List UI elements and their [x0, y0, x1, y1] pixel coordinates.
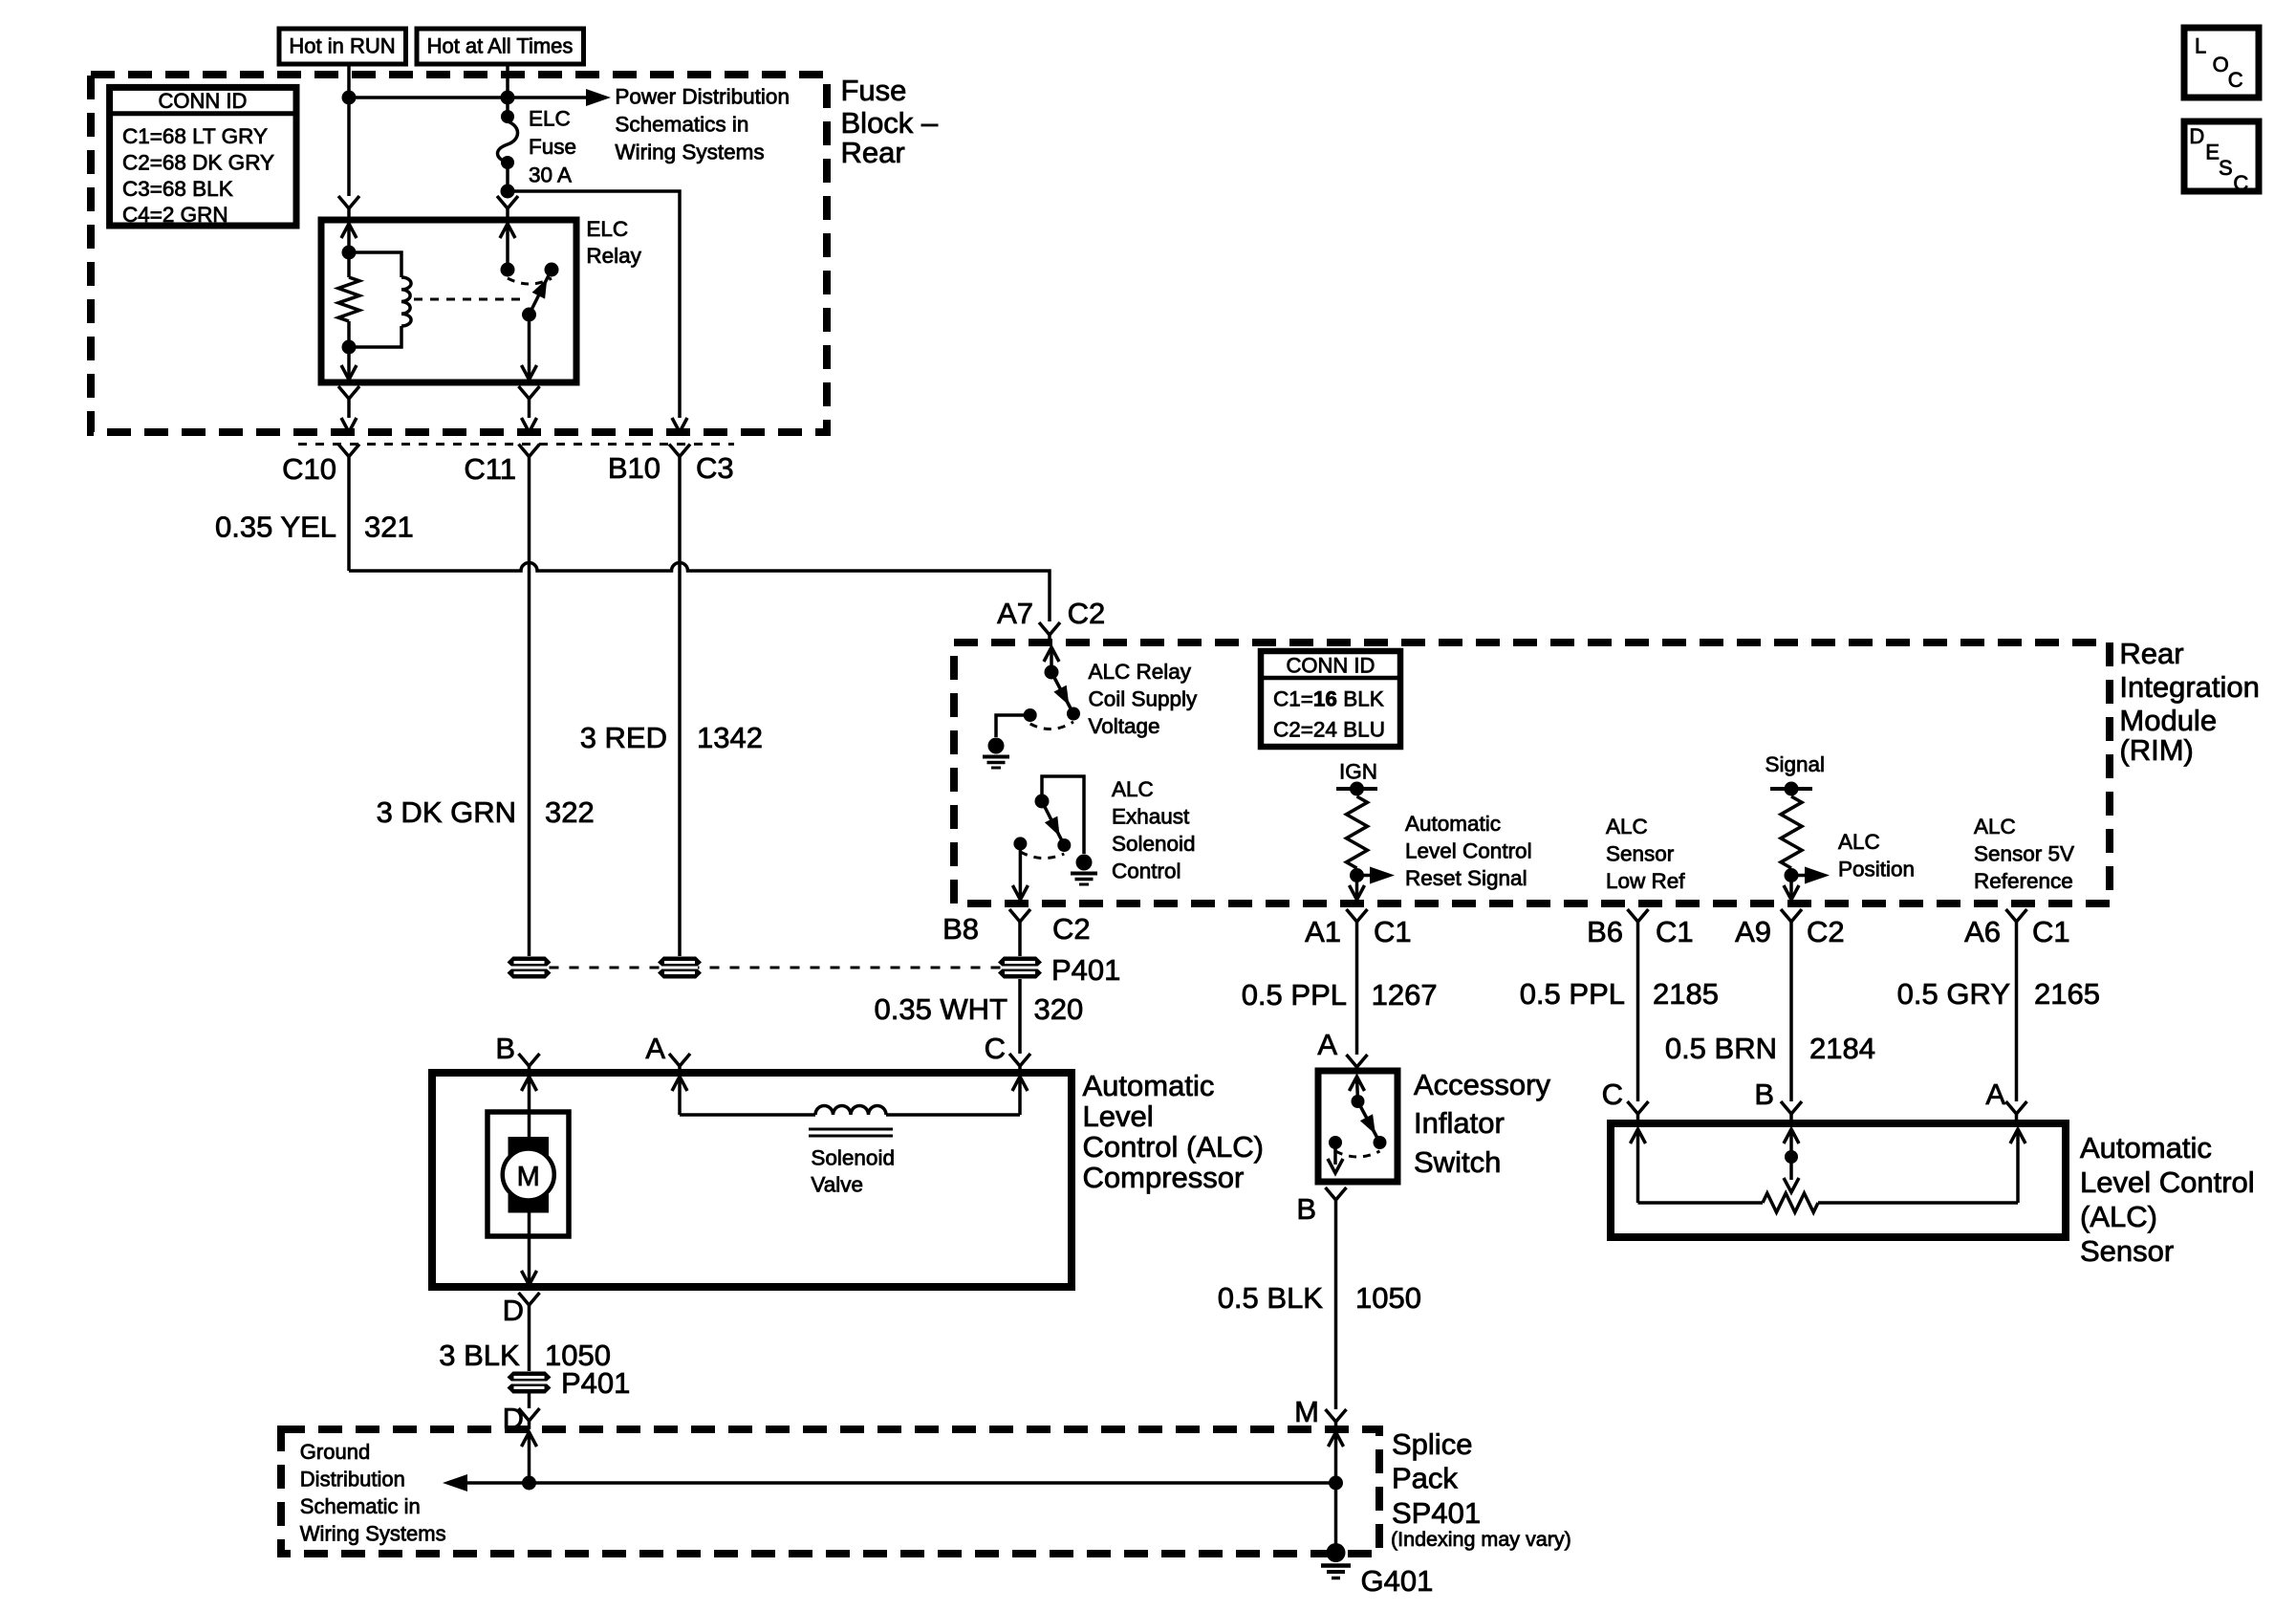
svg-text:A1: A1: [1305, 915, 1341, 948]
contact dot output: [1329, 1136, 1342, 1149]
in-line connector (B10 leg): [658, 957, 702, 979]
connector D below compressor: [519, 1293, 540, 1305]
accessory inflator switch box: [1318, 1071, 1397, 1182]
junction dot fuse output: [501, 185, 515, 199]
svg-text:D: D: [2189, 124, 2204, 148]
connector C into compressor: [1009, 1054, 1030, 1066]
svg-text:Wiring Systems: Wiring Systems: [615, 141, 764, 164]
svg-text:Pack: Pack: [1392, 1462, 1458, 1495]
svg-text:B10: B10: [608, 451, 661, 485]
svg-text:D: D: [503, 1294, 524, 1327]
ground (ALC relay): [988, 738, 1005, 754]
arrow Automatic Level Control Reset Signal: [1357, 874, 1372, 878]
svg-text:C3: C3: [696, 451, 734, 485]
wire 0.5 PPL 2185: [1636, 922, 1640, 1101]
svg-text:ALC: ALC: [1606, 815, 1648, 838]
wire 3 DK GRN 322: [528, 457, 531, 957]
svg-text:0.35 WHT: 0.35 WHT: [874, 992, 1007, 1026]
svg-text:1267: 1267: [1372, 978, 1438, 1012]
fuse ELC Fuse 30A: [501, 110, 514, 123]
svg-text:Automatic: Automatic: [2080, 1131, 2212, 1165]
wire Hot in RUN feed: [347, 64, 351, 196]
svg-text:S: S: [2219, 156, 2233, 180]
potentiometer ALC sensor element: [1638, 1201, 1764, 1205]
svg-text:Splice: Splice: [1392, 1427, 1472, 1461]
svg-text:Rear: Rear: [841, 136, 905, 169]
wire fuse to junction: [506, 163, 509, 191]
svg-text:Solenoid: Solenoid: [1112, 832, 1196, 856]
svg-text:3 RED: 3 RED: [580, 721, 667, 754]
wire solenoid branch: [680, 1113, 815, 1117]
relay contact dot (from fuse): [501, 263, 515, 277]
svg-text:A7: A7: [997, 597, 1033, 630]
svg-text:Block –: Block –: [841, 106, 939, 140]
svg-text:C2: C2: [1068, 597, 1106, 630]
switch arm inflator: [1350, 1077, 1365, 1091]
arrow to ground distribution schematic: [443, 1474, 467, 1491]
svg-text:Integration: Integration: [2119, 670, 2260, 704]
in-line connector P401 (B8 leg): [998, 957, 1042, 979]
wire relay coil link dashed: [414, 298, 521, 301]
splice bus wire: [466, 1481, 1336, 1485]
connector A9 / C2: [1781, 909, 1802, 922]
svg-text:0.5 BRN: 0.5 BRN: [1665, 1032, 1777, 1065]
svg-text:Fuse: Fuse: [841, 74, 907, 107]
arrow motor output: [522, 1271, 537, 1285]
arrow M into splice: [1329, 1432, 1344, 1447]
svg-text:Control (ALC): Control (ALC): [1083, 1130, 1265, 1164]
svg-text:CONN ID: CONN ID: [159, 89, 248, 113]
svg-text:Low Ref: Low Ref: [1606, 869, 1685, 893]
svg-text:P401: P401: [561, 1366, 630, 1400]
svg-text:C2=24 BLU: C2=24 BLU: [1273, 718, 1385, 742]
wire to ground G401: [1334, 1483, 1338, 1545]
resistor relay coil suppression: [347, 252, 351, 277]
svg-text:C: C: [1602, 1078, 1623, 1111]
svg-text:Relay: Relay: [586, 244, 641, 268]
svg-text:Compressor: Compressor: [1083, 1161, 1245, 1194]
svg-text:E: E: [2205, 141, 2220, 164]
wire C10 to A7 horizontal with hops: [349, 563, 1050, 621]
svg-text:Switch: Switch: [1414, 1145, 1501, 1179]
svg-text:C11: C11: [464, 452, 516, 486]
svg-text:Automatic: Automatic: [1083, 1069, 1215, 1102]
svg-text:A: A: [1317, 1028, 1337, 1061]
connector B below inflator switch: [1326, 1187, 1347, 1200]
svg-text:ELC: ELC: [586, 217, 628, 241]
svg-text:ALC Relay: ALC Relay: [1089, 660, 1192, 684]
junction dot power line left: [342, 91, 357, 105]
svg-text:Rear: Rear: [2119, 637, 2183, 670]
switch travel arc dashed: [1020, 852, 1064, 859]
svg-text:Hot at All Times: Hot at All Times: [427, 34, 574, 58]
arrow relay coil output: [341, 365, 357, 380]
connector A6 / C1: [2006, 909, 2027, 922]
svg-text:Schematic in: Schematic in: [300, 1494, 421, 1518]
svg-text:Distribution: Distribution: [300, 1468, 405, 1491]
relay coil input arrow: [341, 224, 357, 238]
arrow motor supply input: [522, 1077, 537, 1091]
svg-text:Voltage: Voltage: [1089, 714, 1160, 738]
arrow C11 exits fuse block: [522, 418, 537, 432]
svg-text:Schematics in: Schematics in: [615, 113, 748, 137]
svg-text:A6: A6: [1964, 915, 2001, 948]
wire power distribution feed line: [349, 96, 586, 99]
wire 0.5 BLK 1050: [1334, 1200, 1338, 1409]
connector A into compressor: [669, 1054, 690, 1066]
svg-text:2165: 2165: [2034, 977, 2100, 1011]
switch travel arc dashed: [1335, 1151, 1380, 1157]
ALC compressor box: [432, 1073, 1072, 1287]
svg-text:B: B: [495, 1032, 515, 1065]
connector row dashed line: [298, 443, 734, 446]
svg-text:Accessory: Accessory: [1414, 1068, 1550, 1101]
svg-text:321: 321: [364, 511, 414, 544]
svg-text:Signal: Signal: [1765, 752, 1826, 776]
svg-text:B6: B6: [1587, 915, 1623, 948]
connector chevron into relay (fuse side): [497, 196, 518, 208]
connector A7 / C2 chevron: [1039, 622, 1060, 635]
svg-text:Reference: Reference: [1974, 869, 2073, 893]
arrow B10 wire exits fuse block: [672, 418, 687, 432]
svg-text:0.35 YEL: 0.35 YEL: [215, 511, 336, 544]
inductor solenoid valve coil: [815, 1106, 886, 1116]
fuse block - rear dashed boundary: [91, 75, 827, 432]
svg-text:Sensor: Sensor: [1606, 842, 1675, 866]
arrow relay switch output: [522, 365, 537, 380]
svg-text:Level Control: Level Control: [2080, 1165, 2255, 1199]
svg-text:C1: C1: [1374, 915, 1412, 948]
connector chevron below relay left: [338, 386, 359, 399]
ground (exhaust solenoid): [1076, 855, 1093, 871]
junction dot M splice: [1329, 1476, 1343, 1491]
wire reset signal exits RIM: [1355, 876, 1359, 898]
svg-text:Exhaust: Exhaust: [1112, 805, 1190, 829]
svg-text:0.5 BLK: 0.5 BLK: [1218, 1281, 1324, 1315]
svg-text:SP401: SP401: [1392, 1496, 1481, 1530]
svg-text:322: 322: [545, 795, 595, 829]
svg-text:Automatic: Automatic: [1405, 812, 1501, 836]
relay contact dot (output side): [545, 263, 559, 277]
contact dot NC (to ground): [1024, 708, 1037, 722]
svg-text:C2: C2: [1052, 912, 1091, 946]
wire fuse output to ELC relay: [506, 191, 509, 196]
connector B into sensor: [1781, 1101, 1802, 1114]
arrow exhaust control exits RIM: [1012, 885, 1028, 900]
svg-text:2184: 2184: [1809, 1032, 1875, 1065]
connector chevron below relay right: [519, 386, 540, 399]
svg-text:C: C: [985, 1032, 1006, 1065]
svg-text:ALC: ALC: [1838, 830, 1880, 854]
svg-text:Sensor: Sensor: [2080, 1234, 2174, 1268]
svg-text:C: C: [2233, 171, 2248, 195]
switch travel arc dashed: [1030, 722, 1073, 729]
connector B into compressor: [519, 1054, 540, 1066]
svg-text:1050: 1050: [1355, 1281, 1421, 1315]
connector chevron into relay (run side): [338, 196, 359, 208]
svg-text:ALC: ALC: [1112, 777, 1154, 801]
svg-text:O: O: [2213, 53, 2229, 76]
wire exhaust control output: [1019, 843, 1023, 897]
wire solenoid to C: [886, 1113, 1020, 1117]
connector C into sensor: [1628, 1101, 1649, 1114]
connector C11: [519, 445, 540, 457]
arrow D into splice: [522, 1432, 537, 1447]
relay ELC Relay box: [321, 220, 576, 382]
wire 0.5 BRN 2184: [1789, 922, 1793, 1101]
relay switch common input arrow: [500, 224, 515, 238]
switch ALC exhaust solenoid control: [1035, 795, 1050, 809]
wire 0.5 PPL 1267: [1355, 922, 1359, 1055]
svg-text:C: C: [2228, 68, 2243, 92]
svg-text:L: L: [2195, 34, 2206, 58]
svg-text:3 BLK: 3 BLK: [439, 1339, 520, 1372]
svg-text:(ALC): (ALC): [2080, 1200, 2157, 1233]
svg-text:0.5 PPL: 0.5 PPL: [1520, 977, 1625, 1011]
resistor ALC position pull-up: [1781, 796, 1802, 868]
wire 0.35 YEL 321: [347, 457, 351, 572]
switch ALC relay coil supply: [1044, 647, 1059, 662]
svg-text:A9: A9: [1735, 915, 1771, 948]
arrow C10 exits fuse block: [341, 418, 357, 432]
svg-text:C2=68 DK GRY: C2=68 DK GRY: [122, 151, 274, 175]
arrow to Power Distribution Schematics: [586, 89, 611, 106]
relay switch output wire: [528, 315, 531, 380]
svg-text:A: A: [1985, 1078, 2005, 1111]
ALC sensor box: [1611, 1123, 2066, 1237]
svg-text:C1=68 LT GRY: C1=68 LT GRY: [122, 124, 268, 148]
wire 3 RED 1342: [678, 457, 682, 957]
svg-text:Level: Level: [1083, 1099, 1154, 1133]
svg-text:3 DK GRN: 3 DK GRN: [377, 795, 516, 829]
rear integration module dashed boundary: [954, 642, 2110, 903]
svg-text:(Indexing may vary): (Indexing may vary): [1391, 1528, 1571, 1551]
svg-text:IGN: IGN: [1339, 760, 1377, 784]
relay switch arm: [530, 270, 552, 315]
connector A into sensor: [2006, 1101, 2027, 1114]
svg-text:C10: C10: [282, 452, 336, 486]
wire fuse output branch to B10/C3: [508, 191, 680, 418]
svg-text:C1=16 BLK: C1=16 BLK: [1273, 687, 1384, 711]
svg-text:Sensor 5V: Sensor 5V: [1974, 842, 2074, 866]
motor M compressor motor: [487, 1112, 569, 1236]
svg-text:CONN ID: CONN ID: [1287, 654, 1375, 678]
svg-text:Ground: Ground: [300, 1440, 370, 1464]
svg-text:B8: B8: [942, 912, 979, 946]
svg-text:B: B: [1754, 1078, 1774, 1111]
arrow solenoid input C: [1012, 1077, 1028, 1091]
junction dot coil top: [342, 246, 357, 260]
junction dot D splice: [522, 1476, 536, 1491]
svg-text:Valve: Valve: [811, 1173, 863, 1197]
svg-text:Reset Signal: Reset Signal: [1405, 866, 1527, 890]
svg-text:Hot in RUN: Hot in RUN: [289, 34, 395, 58]
ground G401: [1327, 1543, 1346, 1562]
dashed link between in-line connectors: [530, 967, 1021, 969]
svg-text:C4=2 GRN: C4=2 GRN: [122, 203, 228, 227]
node LOC reference box: [2184, 28, 2259, 98]
svg-text:(RIM): (RIM): [2119, 733, 2193, 767]
svg-text:C2: C2: [1807, 915, 1845, 948]
svg-text:Inflator: Inflator: [1414, 1106, 1505, 1140]
svg-text:Level Control: Level Control: [1405, 839, 1532, 863]
connector B8 / C2: [1009, 909, 1030, 922]
connector B6 / C1: [1628, 909, 1649, 922]
svg-text:G401: G401: [1361, 1564, 1434, 1598]
svg-text:0.5 PPL: 0.5 PPL: [1242, 978, 1347, 1012]
svg-text:M: M: [1294, 1395, 1319, 1428]
connector B10 / C3: [669, 445, 690, 457]
arrow solenoid input A: [672, 1077, 687, 1091]
arrow switch output: [1328, 1159, 1343, 1173]
arrow sensor low ref input: [1631, 1129, 1646, 1143]
svg-text:Control: Control: [1112, 860, 1181, 883]
svg-text:0.5 GRY: 0.5 GRY: [1897, 977, 2010, 1011]
contact dot NC (to B8): [1013, 837, 1027, 850]
node Hot in RUN box: [279, 29, 406, 64]
junction dot coil bottom: [342, 340, 357, 355]
svg-text:P401: P401: [1051, 953, 1120, 987]
svg-text:Coil Supply: Coil Supply: [1089, 687, 1199, 711]
resistor ALC reset pull-up: [1347, 796, 1368, 868]
connector A1 / C1: [1347, 909, 1368, 922]
svg-text:C1: C1: [2032, 915, 2070, 948]
arrow sensor 5V input: [2016, 1129, 2020, 1203]
svg-text:Position: Position: [1838, 858, 1915, 882]
relay coil output wire: [347, 347, 351, 380]
svg-text:1342: 1342: [697, 721, 763, 754]
svg-text:ELC: ELC: [529, 107, 571, 131]
relay switch travel arc dashed: [508, 278, 552, 284]
svg-text:Power Distribution: Power Distribution: [615, 85, 790, 109]
wire 0.35 WHT 320: [1018, 979, 1022, 1054]
wire position signal exits RIM: [1789, 876, 1793, 898]
inductor relay coil: [349, 252, 401, 277]
potentiometer wiper: [1784, 1129, 1799, 1143]
wire to splice pack D: [528, 1394, 531, 1409]
wire NC contact to ground: [996, 715, 1030, 737]
connector C10: [338, 445, 359, 457]
wire 0.5 GRY 2165: [2015, 922, 2019, 1101]
relay switch pivot dot: [522, 308, 536, 322]
in-line connector (C11 leg): [508, 957, 552, 979]
svg-text:C1: C1: [1656, 915, 1694, 948]
node DESC reference box: [2184, 121, 2259, 191]
wire Hot at All Times feed: [506, 64, 509, 117]
arrow ALC Position: [1791, 874, 1805, 878]
svg-text:B: B: [1296, 1192, 1316, 1226]
in-line connector P401 (ground leg): [508, 1372, 552, 1394]
svg-text:2185: 2185: [1653, 977, 1719, 1011]
svg-text:ALC: ALC: [1974, 815, 2016, 838]
junction dot position signal: [1785, 868, 1799, 882]
svg-text:Solenoid: Solenoid: [811, 1146, 895, 1170]
svg-text:30 A: 30 A: [529, 163, 572, 187]
svg-text:Fuse: Fuse: [529, 135, 576, 159]
junction dot reset signal: [1350, 868, 1364, 882]
svg-text:320: 320: [1034, 992, 1084, 1026]
connector ID table (fuse block): [110, 87, 296, 226]
wire switch output: [1333, 1143, 1337, 1165]
junction dot on power line: [501, 91, 515, 105]
svg-text:A: A: [645, 1032, 665, 1065]
node Hot at All Times box: [417, 29, 584, 64]
svg-text:Wiring Systems: Wiring Systems: [300, 1522, 446, 1546]
splice pack dashed boundary: [281, 1429, 1379, 1554]
connector ID table (RIM): [1261, 651, 1400, 747]
svg-text:Module: Module: [2119, 704, 2217, 737]
svg-text:C3=68 BLK: C3=68 BLK: [122, 177, 233, 201]
motor ground-side wire: [528, 1212, 531, 1282]
svg-text:M: M: [517, 1162, 540, 1192]
